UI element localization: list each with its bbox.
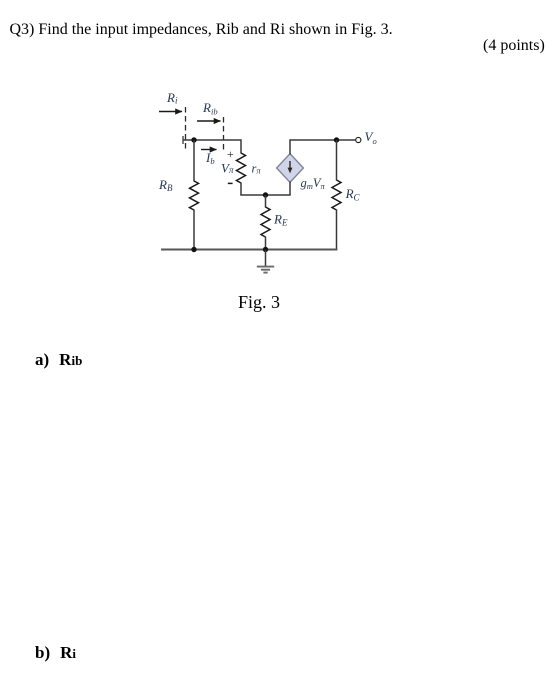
wire top-left horizontal (183, 139, 241, 141)
svg-text:Ib: Ib (205, 150, 215, 166)
wire RE bottom (265, 237, 267, 250)
svg-text:Rib: Rib (202, 100, 218, 117)
resistor RE (261, 207, 270, 237)
ground bar 3 (263, 272, 267, 274)
svg-text:Vo: Vo (365, 129, 377, 146)
wire RB bottom (193, 210, 195, 250)
output terminal circle (356, 137, 361, 142)
node B junction dot (191, 137, 196, 142)
Rib arrow (197, 120, 221, 122)
junction dot RB-rail (191, 247, 196, 252)
wire source bottom (289, 182, 291, 196)
Ri arrow (159, 111, 182, 113)
part b label (35, 643, 76, 663)
source arrow (289, 161, 291, 169)
label minus Vpi (228, 182, 233, 184)
svg-text:Vπ: Vπ (221, 160, 234, 175)
wire top-right horizontal (290, 139, 355, 141)
question heading (10, 21, 393, 39)
resistor RC (332, 180, 341, 210)
ground bar 1 (257, 266, 274, 268)
figure caption (238, 292, 280, 313)
svg-text:+: + (227, 147, 234, 161)
points (483, 37, 545, 55)
svg-text:RB: RB (158, 177, 173, 193)
dashed boundary line Rib (223, 117, 225, 153)
svg-text:Ri: Ri (166, 90, 178, 106)
svg-text:RE: RE (273, 212, 288, 228)
Ib arrow (201, 149, 217, 151)
wire emitter horizontal (240, 194, 290, 196)
node E junction dot (263, 192, 268, 197)
wire RC bottom (336, 210, 338, 251)
junction dot RE-rail (263, 247, 268, 252)
ground stem (265, 250, 267, 267)
svg-text:gmVπ: gmVπ (301, 176, 326, 191)
resistor r-pi (237, 153, 246, 183)
wire RB top (193, 140, 195, 182)
wire r-pi top (240, 139, 242, 153)
wire RC top (336, 140, 338, 181)
wire source top (289, 139, 291, 154)
node C junction dot (334, 137, 339, 142)
part a label (35, 350, 82, 370)
resistor RB (190, 181, 199, 210)
svg-text:rπ: rπ (252, 162, 262, 176)
wire RE top (265, 195, 267, 208)
ground bar 2 (261, 269, 270, 271)
wire r-pi bottom (240, 183, 242, 196)
svg-text:RC: RC (345, 186, 361, 203)
dependent source gmVpi (diamond) (277, 154, 304, 183)
wire bottom rail (161, 248, 337, 250)
dashed boundary line Ri (185, 107, 187, 152)
tick left end of wire (182, 136, 184, 144)
